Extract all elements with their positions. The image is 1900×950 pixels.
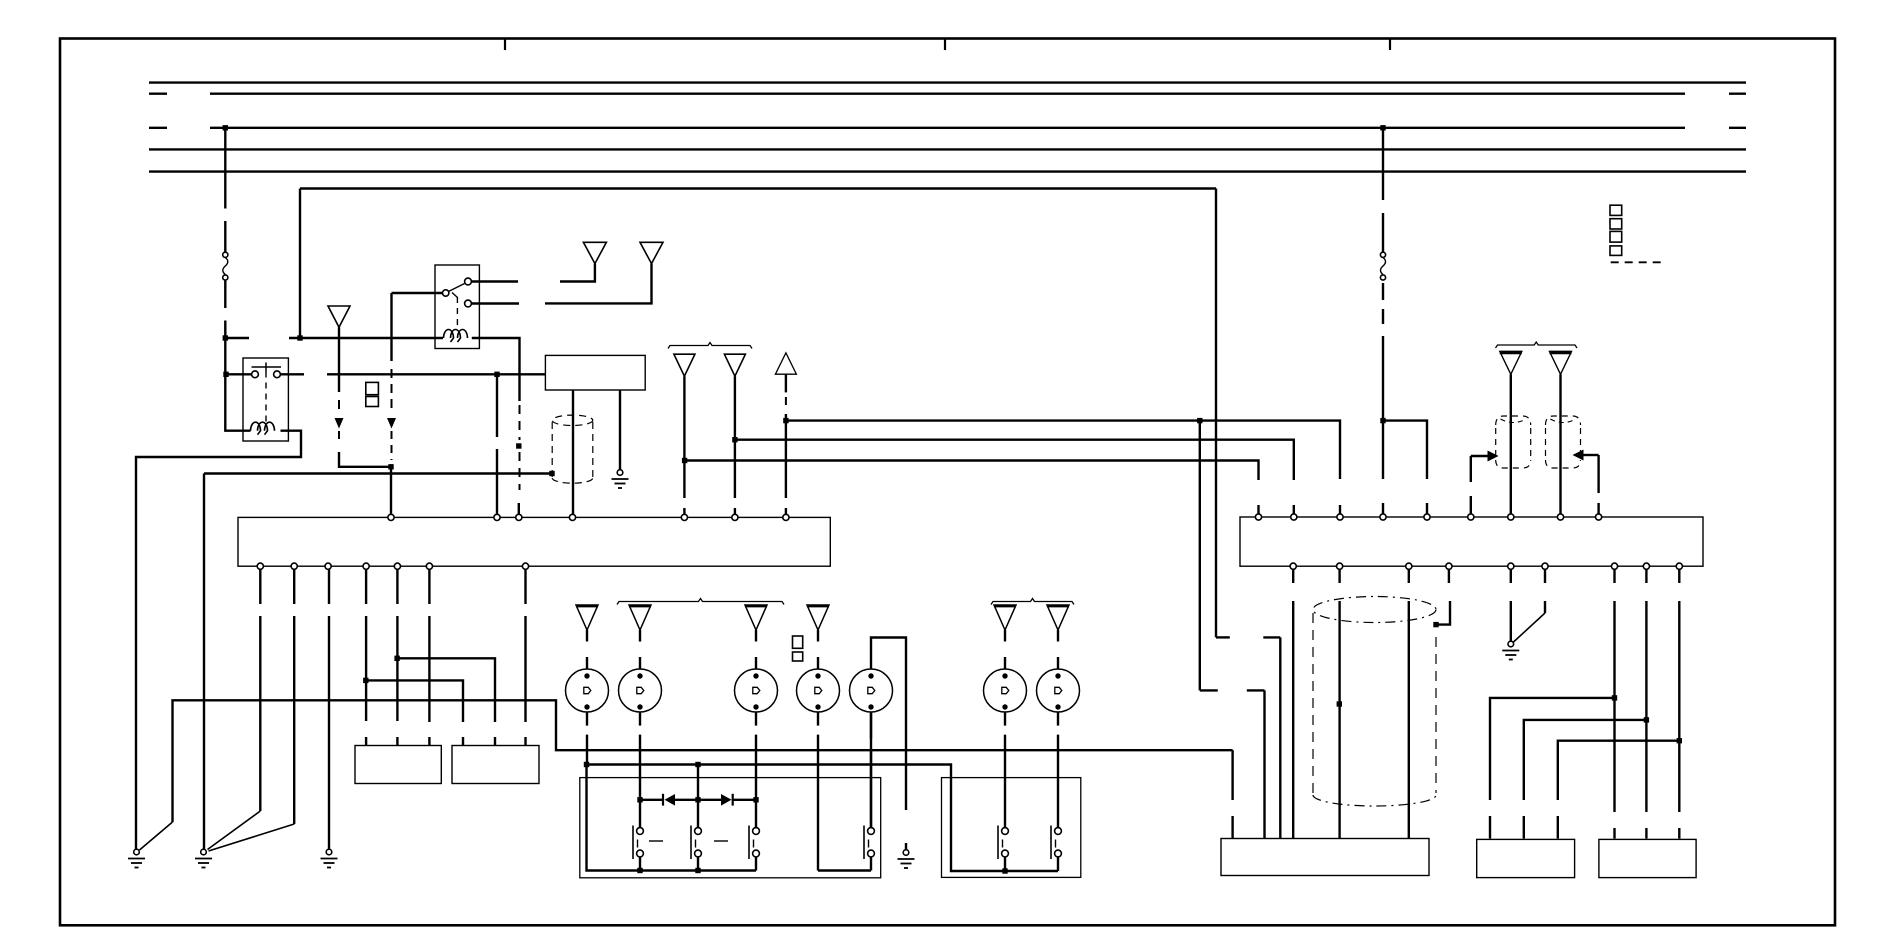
wire mast stem dash — [785, 397, 787, 410]
wire ANT6 rod — [1510, 374, 1512, 514]
ground G3 — [321, 849, 338, 867]
top border tick 2 — [944, 39, 946, 51]
node branch d — [1612, 695, 1617, 700]
wire stem into L3 — [755, 630, 757, 669]
connector C1 top pin 1 — [388, 514, 394, 520]
wire mast stem upper — [785, 374, 787, 392]
wire ANT1 stem — [338, 327, 340, 392]
relay RY1 pin left — [252, 371, 259, 378]
wire L1 bottom to W2 — [586, 712, 588, 765]
wire diode mid to W2 — [697, 765, 699, 800]
wire feed arrow right — [1583, 455, 1599, 515]
ground G1 — [128, 849, 145, 867]
ground triangle over L3 — [745, 605, 767, 630]
wire sender lever — [1514, 569, 1546, 642]
grommet ANT6 dashed — [1496, 416, 1531, 468]
amplifier box — [545, 355, 645, 390]
lamp L3 — [735, 669, 778, 712]
connector C2 top pin 7 — [1508, 514, 1514, 520]
connector C1 box — [238, 517, 830, 566]
bus wire 4 — [149, 148, 1746, 150]
connector C2 top pin 5 — [1424, 514, 1430, 520]
wire RY2 common out — [392, 292, 443, 294]
wire C2 pin to tank right — [1436, 569, 1450, 625]
relay RY1 pin right — [274, 371, 281, 378]
connector C2 top pin 9 — [1596, 514, 1602, 520]
wire L6 bottom — [1004, 712, 1006, 828]
junction on bus wire 3 right — [1380, 125, 1385, 130]
arrow into ANT7 — [1573, 450, 1584, 461]
node W2 at S5 bottom — [1002, 868, 1007, 873]
wire fuse F1 upper segment — [224, 128, 226, 252]
wire C1 pin to box B1 c — [428, 569, 430, 746]
wire C2 pin down a — [1292, 569, 1294, 839]
arrow into ANT6 — [1488, 451, 1499, 462]
diode D2 — [721, 794, 733, 806]
node diode mid at W2 — [695, 762, 700, 767]
relay RY1 contact bar — [252, 363, 282, 372]
relay RY2 contact upper — [465, 278, 472, 285]
lamp L7 — [1037, 669, 1080, 712]
connector C1 top pin 2 — [494, 514, 500, 520]
wire ANT2 stem and jog — [560, 264, 595, 282]
switch S5 — [998, 826, 1008, 860]
antenna mast symbol (up triangle) — [775, 353, 796, 374]
wire h1 drop to pin — [1339, 505, 1341, 515]
wire F2 drop to pin — [1382, 421, 1384, 515]
bus wire 2 (gaps at label positions) — [149, 92, 1746, 94]
wire S4 top stem — [870, 712, 872, 828]
antenna ANT5 triangle — [724, 354, 745, 376]
ground G5 — [898, 850, 915, 868]
brace over ANT4/ANT5 — [668, 343, 752, 349]
wire branch to box B2 a — [366, 680, 463, 745]
lamp L4 — [797, 669, 840, 712]
connector C2 bottom pin 4 — [1446, 563, 1452, 569]
wire fuse F2 to connector — [1382, 336, 1384, 421]
connector C2 top pin 2 — [1291, 514, 1297, 520]
connector C2 top pin 6 — [1468, 514, 1474, 520]
node F2 branch — [1380, 418, 1385, 423]
connector C2 top pin 1 — [1255, 514, 1261, 520]
brace over right lamp pair — [991, 599, 1074, 605]
wire branch h3 to right connector — [685, 461, 1259, 481]
wire fuse F1 lower segment — [224, 281, 226, 375]
wire RY2 coil drop to pin — [518, 503, 520, 515]
connector C1 bottom pin 6 — [426, 563, 432, 569]
box B3 — [1477, 839, 1575, 877]
wire RY1 coil-right to ground G1 run — [136, 431, 301, 849]
wire condenser shield to ground G2 — [204, 472, 552, 474]
connector C1 bottom pin 4 — [363, 563, 369, 569]
node h1 tap for vertical 1200 — [1197, 418, 1202, 423]
node branch e — [1644, 717, 1649, 722]
diode bus — [640, 799, 756, 801]
relay RY1 actuator dashed — [265, 372, 267, 425]
node ANT1 feeder joins relay feeder — [388, 464, 393, 469]
brace over lamp group — [617, 599, 784, 605]
top border tick 1 — [504, 39, 506, 51]
wire C2 pin to ground G6 — [1510, 569, 1512, 641]
wire branch h1 to right connector — [786, 421, 1340, 479]
antenna ANT2 triangle — [583, 242, 606, 263]
relay RY2 box — [435, 265, 479, 349]
wire F2 branch to second pin — [1383, 421, 1427, 515]
wire stem into L4 — [817, 630, 819, 669]
wire ANT3 stem and jog — [545, 264, 652, 304]
node branch to box B2 a — [363, 678, 368, 683]
wire S3 bottom stub — [755, 857, 757, 871]
node ANT5 branch — [732, 437, 737, 442]
ground triangle over L2 — [629, 605, 651, 630]
switch S2 — [691, 826, 701, 860]
connector C2 bottom pin 9 — [1676, 563, 1682, 569]
connector C1 top pin 7 — [783, 514, 789, 520]
antenna ANT4 triangle — [674, 354, 695, 376]
node tank right tap — [1433, 622, 1438, 627]
fuse F1 — [223, 252, 228, 280]
connector C1 bottom pin 7 — [522, 563, 528, 569]
wire amplifier out center — [572, 390, 574, 515]
bus wire 5 — [149, 170, 1746, 172]
wire RY2 contact upper out — [471, 280, 518, 282]
wire mast stem to node — [785, 414, 787, 421]
connector C2 bottom pin 7 — [1611, 563, 1617, 569]
node diode bus a — [637, 797, 642, 802]
wire S1 bottom stub — [639, 857, 641, 871]
node on RY2 coil drop — [516, 443, 521, 448]
connector C2 bottom pin 3 — [1406, 563, 1412, 569]
connector C1 bottom pin 2 — [291, 563, 297, 569]
node branch to connector pin — [494, 372, 499, 377]
wire L7 bottom — [1057, 712, 1059, 828]
bus wire 3 (gaps at label positions) — [149, 127, 1746, 129]
wire RY1 contact to amplifier — [327, 373, 545, 375]
wire S5 bottom stub — [1004, 857, 1006, 871]
wire RY2 coil drop dashed — [519, 405, 521, 490]
wire C2 pin down c — [1408, 569, 1410, 839]
node RY1 left pin feed — [223, 372, 228, 377]
wire C2 pin down d — [1613, 569, 1615, 839]
inline connector squares pair 2 — [793, 636, 803, 661]
node condenser shield tap — [549, 471, 554, 476]
switch box SB2 — [942, 778, 1081, 878]
condenser CN1 dashed shell — [552, 415, 593, 483]
box B2 — [452, 746, 539, 784]
wire top feed horizontal — [300, 187, 1216, 189]
wire ANT4 stem — [683, 376, 685, 514]
antenna ANT3 triangle — [640, 242, 663, 263]
ground triangle over L4 — [807, 605, 829, 630]
wire branch to box B3 a — [1490, 698, 1615, 839]
wire branch down to connector pin — [496, 374, 498, 514]
wire dashed branch right of F1 — [225, 337, 249, 339]
wire C1 pin to ground G2 diag b — [209, 569, 295, 851]
wire C2 pin down b (through tank) — [1338, 569, 1340, 839]
wire C1 pin to ground G3 — [328, 569, 330, 849]
wire S6 bottom stub — [1057, 857, 1059, 871]
node branch to box B2 b — [394, 656, 399, 661]
connector C2 box — [1240, 517, 1703, 566]
grommet ANT7 inner arc — [1550, 419, 1575, 423]
wire stem into L1 — [586, 630, 588, 669]
wire v1216 jog — [1216, 637, 1280, 838]
connector C2 top pin 3 — [1337, 514, 1343, 520]
connector key squares — [1610, 205, 1622, 255]
wire RY2 contact lower out — [471, 302, 519, 304]
antenna ANT7 triangle — [1550, 352, 1572, 375]
antenna ANT1 triangle — [328, 306, 350, 327]
node h1 start — [783, 418, 788, 423]
wire C1 pin to box B2 c — [524, 569, 526, 746]
wire S1 to diode bus — [639, 800, 641, 828]
wire C1 pin to ground G2 diag a — [208, 569, 261, 850]
fuse F2 — [1380, 252, 1385, 280]
relay RY2 blade — [449, 284, 465, 298]
diode D1 — [663, 794, 675, 806]
wire branch to box B2 b — [397, 658, 495, 745]
node fuse branch — [223, 335, 228, 340]
switch S1 — [633, 826, 643, 860]
wire relay RY2 coil feed — [289, 337, 443, 339]
brace over ANT6/ANT7 — [1496, 342, 1578, 348]
wire L3 bottom — [755, 712, 757, 800]
wire fuse F2 upper segment — [1382, 128, 1384, 252]
node branch f — [1677, 738, 1682, 743]
wire top feed left drop — [299, 189, 301, 339]
relay RY1 box — [243, 358, 288, 441]
node on tank wire — [1337, 701, 1342, 706]
wire RY1 left pin feed — [226, 373, 252, 375]
wire branch to box B3 b — [1524, 720, 1647, 839]
connector C2 bottom pin 6 — [1542, 563, 1548, 569]
wire feed arrow left — [1471, 456, 1488, 515]
connector C1 top pin 6 — [732, 514, 738, 520]
node switch bus b — [695, 868, 700, 873]
lamp L1 — [566, 669, 609, 712]
wire W2 run — [587, 765, 1059, 872]
node top feed drop joins coil feed — [297, 335, 302, 340]
switch S3 — [749, 826, 759, 860]
connector C2 top pin 4 — [1380, 514, 1386, 520]
wire C1 pin to box B1 b — [396, 569, 398, 746]
box B5 — [1221, 839, 1429, 876]
wire C2 pin down e — [1645, 569, 1647, 839]
wire W1 diagonal into ground G1 — [140, 822, 173, 850]
switch box SB1 — [580, 778, 881, 878]
connector C1 bottom pin 1 — [257, 563, 263, 569]
wire branch to box B3 c — [1558, 741, 1680, 839]
node diode bus c — [753, 797, 758, 802]
connector C2 bottom pin 8 — [1643, 563, 1649, 569]
relay RY2 coil — [444, 330, 468, 343]
connector C2 bottom pin 2 — [1337, 563, 1343, 569]
connector C1 top pin 3 — [516, 514, 522, 520]
wire RY2 feeder lower dashed — [391, 431, 393, 460]
node ANT4 branch — [682, 458, 687, 463]
connector C1 bottom pin 5 — [394, 563, 400, 569]
wire amplifier out right — [619, 390, 621, 469]
wire ANT7 rod — [1559, 374, 1561, 514]
inline connector squares pair 1 — [366, 382, 379, 406]
grommet ANT6 inner arc — [1501, 419, 1526, 423]
relay RY1 coil — [251, 422, 275, 435]
gang dashes S1-S3 — [649, 840, 728, 842]
wire W1 drop into B5 — [1231, 750, 1233, 838]
box B1 — [355, 746, 441, 784]
wire RY2 feeder to pin — [390, 467, 392, 515]
switch S4 — [864, 826, 874, 860]
connector C2 top pin 8 — [1557, 514, 1563, 520]
wire ANT1 feeder lower dashed — [338, 431, 340, 445]
grommet ANT7 dashed — [1546, 416, 1581, 468]
wire ground G2 drop — [203, 474, 205, 850]
relay RY2 common pin — [443, 290, 449, 296]
wire RY1 right pin out — [280, 373, 304, 375]
wire v1200 jog — [1200, 690, 1265, 838]
fuel tank dashed shell — [1313, 597, 1436, 807]
ground triangle over L6 — [994, 605, 1016, 630]
wire mast stem to pin — [785, 421, 787, 515]
wire RY1 coil-left drop — [225, 374, 250, 430]
wire L4/S4 link — [818, 857, 871, 871]
wire h3 drop to pin — [1257, 505, 1259, 515]
junction on bus wire 3 left — [223, 125, 228, 130]
connector C2 bottom pin 1 — [1290, 563, 1296, 569]
key dashed line — [1611, 261, 1666, 263]
relay RY2 contact lower — [465, 300, 472, 307]
ground G4 — [612, 470, 629, 488]
wire S2 to diode bus — [697, 800, 699, 828]
connector C1 top pin 4 — [569, 514, 575, 520]
ground triangle over L1 — [576, 605, 598, 630]
wire RY2 common drop upper — [390, 293, 392, 361]
wire L5 bottom — [870, 712, 872, 828]
lamp L6 — [984, 669, 1027, 712]
wire ANT5 stem — [734, 376, 736, 514]
wire stem into L2 — [639, 630, 641, 669]
arrow on ANT1 feeder — [335, 418, 344, 429]
wire stem into L6 — [1004, 630, 1006, 669]
wire S3 to diode bus — [755, 800, 757, 828]
lamp L2 — [619, 669, 662, 712]
connector C2 bottom pin 5 — [1508, 563, 1514, 569]
wire ANT1 feeder elbow — [339, 452, 391, 467]
wire L4 bottom — [817, 712, 819, 871]
wire top feed right drop — [1215, 189, 1217, 638]
wire RY2 coil right drop — [472, 338, 520, 401]
wire h2 drop to pin — [1293, 505, 1295, 515]
wire L2 bottom — [639, 712, 641, 800]
node diode bus b — [695, 797, 700, 802]
wire L5 top to ground G5 — [871, 638, 906, 850]
arrow on RY2 feeder — [387, 418, 396, 429]
wire v1200 down — [1199, 421, 1201, 691]
ground G6 — [1502, 641, 1519, 659]
switch S6 — [1051, 826, 1061, 860]
wire RY2 common dashed — [391, 369, 393, 414]
antenna ANT6 triangle — [1500, 352, 1522, 375]
node W2 start — [584, 762, 589, 767]
top border tick 3 — [1389, 39, 1391, 51]
ground triangle over L7 — [1047, 605, 1069, 630]
node switch bus a — [637, 868, 642, 873]
wire fuse F2 below dashed — [1382, 283, 1384, 324]
relay RY2 actuator dashed — [456, 297, 458, 330]
bus wire 1 — [149, 81, 1746, 83]
wire ANT1 stem dashed — [338, 400, 340, 414]
lamp L5 — [850, 669, 893, 712]
wire stem into L7 — [1057, 630, 1059, 669]
wire W1 to bottom connector B5 — [173, 700, 1233, 822]
switch bus SB1 — [587, 765, 757, 871]
box B4 — [1599, 839, 1696, 877]
wire branch h2 to right connector — [735, 440, 1294, 480]
connector C1 bottom pin 3 — [325, 563, 331, 569]
connector C1 top pin 5 — [681, 514, 687, 520]
wire C1 pin to box B1 a — [365, 569, 367, 746]
wire C2 pin down f — [1678, 569, 1680, 839]
wire S2 bottom stub — [697, 857, 699, 871]
ground G2 — [195, 849, 212, 867]
